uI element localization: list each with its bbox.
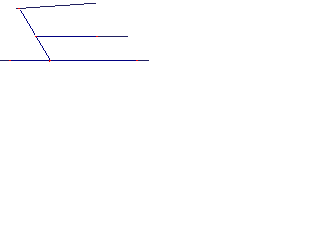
segment FG (bottom navy segment on line m, row 60) (10, 60, 136, 61)
point E (right end of middle navy segment) (96, 36, 98, 37)
line j (top line through point A, faint navy, stepped 1px pixel runs) (16, 3, 96, 9)
line k faint extension right of point E (98, 36, 128, 37)
background (0, 0, 149, 72)
point C lower pixel row (49, 61, 50, 62)
segment DE (middle navy segment on line k, row 36) (37, 36, 96, 37)
point A (top, on line j and transversal) (18, 8, 20, 9)
line m faint stub left of point F (0, 60, 9, 61)
transversal t (navy, one pixel per row from A down to C) (19, 8, 50, 60)
point C (bottom line at transversal) (49, 60, 51, 61)
point F (bottom line, left) (9, 60, 11, 61)
line m faint extension right of point G (138, 60, 149, 61)
point D (middle line at transversal) (35, 36, 37, 37)
point G (bottom line, right) (136, 60, 138, 61)
